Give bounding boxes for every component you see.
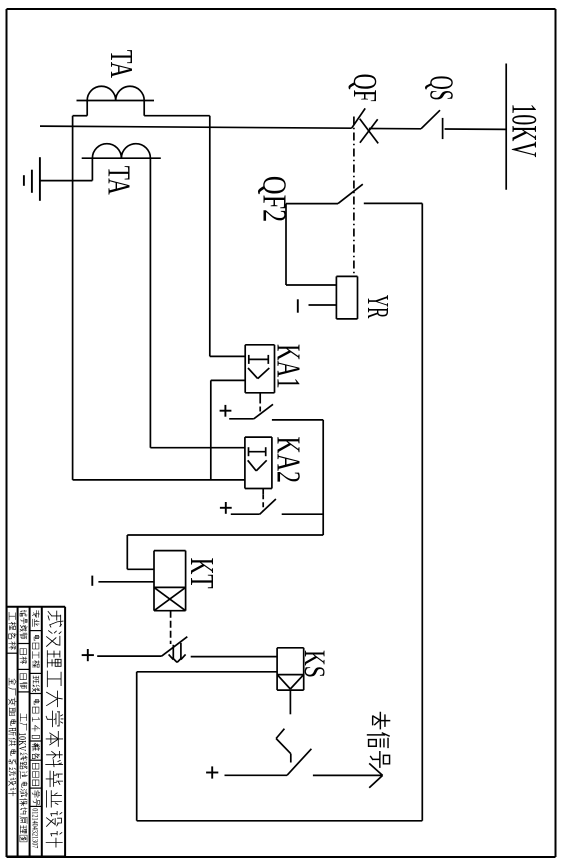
- svg-text:YR: YR: [361, 295, 396, 319]
- svg-text:0121404321307: 0121404321307: [30, 808, 39, 848]
- svg-text:KA2: KA2: [269, 436, 306, 483]
- svg-text:QF2: QF2: [256, 176, 293, 222]
- svg-text:KT: KT: [183, 558, 220, 589]
- svg-text:QF: QF: [346, 74, 383, 102]
- svg-text:KA1: KA1: [269, 344, 306, 389]
- svg-text:TA: TA: [102, 166, 138, 195]
- svg-text:10KV: 10KV: [505, 103, 545, 157]
- svg-text:10KV: 10KV: [16, 732, 28, 751]
- svg-text:QS: QS: [423, 76, 460, 101]
- svg-text:TA: TA: [104, 50, 140, 78]
- svg-text:KS: KS: [298, 650, 331, 678]
